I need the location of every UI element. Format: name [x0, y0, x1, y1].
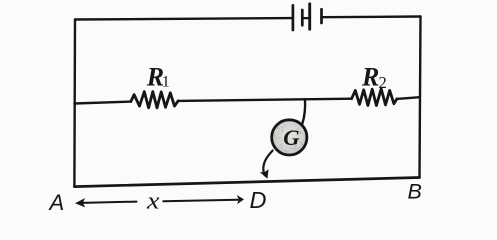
svg-text:D: D — [250, 187, 267, 213]
svg-text:1: 1 — [162, 74, 170, 91]
svg-text:R: R — [361, 62, 379, 91]
svg-text:A: A — [48, 190, 65, 215]
svg-text:x: x — [146, 189, 160, 215]
svg-text:2: 2 — [379, 73, 387, 92]
svg-text:B: B — [408, 180, 422, 204]
svg-text:G: G — [283, 125, 299, 150]
